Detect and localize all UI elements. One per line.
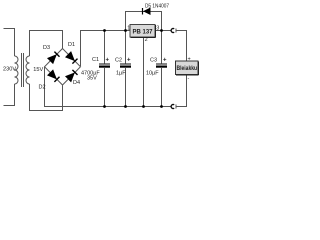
svg-text:35V: 35V — [87, 75, 97, 81]
svg-text:PB 137: PB 137 — [133, 28, 153, 35]
svg-text:3: 3 — [156, 25, 159, 31]
svg-text:230V: 230V — [3, 67, 16, 73]
svg-text:C3: C3 — [150, 58, 157, 64]
svg-text:Bleiakku: Bleiakku — [177, 65, 198, 72]
svg-text:-: - — [188, 76, 190, 82]
svg-text:+: + — [163, 58, 167, 64]
svg-text:D4: D4 — [73, 80, 80, 86]
svg-text:2: 2 — [145, 37, 148, 43]
svg-text:D5 1N4007: D5 1N4007 — [145, 3, 169, 9]
svg-text:C1: C1 — [92, 57, 99, 63]
svg-text:D1: D1 — [68, 42, 75, 48]
svg-text:+: + — [127, 58, 131, 64]
svg-text:+: + — [188, 56, 191, 62]
svg-text:+: + — [106, 58, 110, 64]
svg-text:1: 1 — [127, 25, 130, 31]
svg-text:D2: D2 — [39, 85, 46, 91]
svg-text:10µF: 10µF — [146, 70, 159, 76]
svg-text:C2: C2 — [115, 58, 122, 64]
svg-text:1µF: 1µF — [116, 70, 126, 76]
svg-text:15V: 15V — [33, 67, 43, 73]
svg-text:D3: D3 — [43, 45, 50, 51]
